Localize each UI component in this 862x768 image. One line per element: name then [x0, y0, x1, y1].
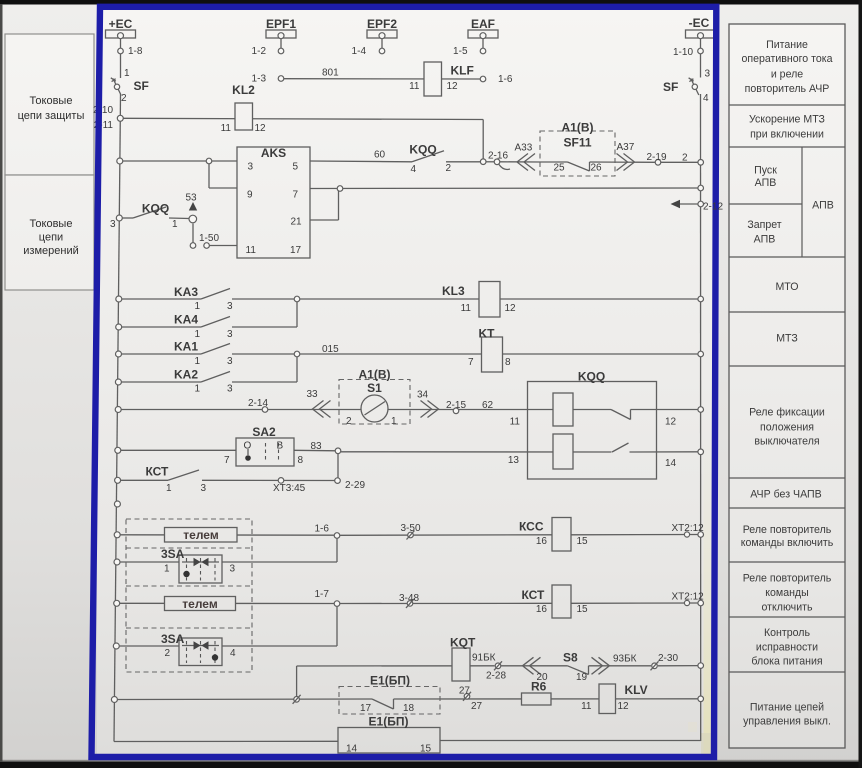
svg-text:2-19: 2-19: [647, 152, 667, 163]
svg-text:Реле повторитель: Реле повторитель: [743, 524, 832, 536]
svg-text:11: 11: [581, 701, 592, 712]
svg-text:управления выкл.: управления выкл.: [743, 716, 831, 728]
svg-text:12: 12: [255, 123, 267, 134]
svg-text:1: 1: [164, 564, 170, 575]
svg-text:команды включить: команды включить: [741, 537, 834, 549]
svg-text:2: 2: [346, 416, 352, 427]
svg-text:1-10: 1-10: [673, 47, 693, 58]
svg-text:КСТ: КСТ: [522, 588, 546, 602]
svg-text:исправности: исправности: [756, 642, 818, 654]
svg-text:3: 3: [705, 69, 711, 80]
svg-text:выключателя: выключателя: [754, 436, 819, 448]
svg-text:телем: телем: [183, 528, 219, 542]
svg-text:команды: команды: [765, 587, 808, 599]
svg-text:Токовые: Токовые: [30, 95, 73, 107]
svg-text:3: 3: [227, 356, 233, 367]
svg-text:В: В: [277, 441, 284, 452]
svg-text:11: 11: [409, 81, 420, 92]
svg-text:S1: S1: [367, 381, 382, 395]
svg-text:KLV: KLV: [625, 683, 648, 697]
svg-text:2-14: 2-14: [248, 398, 268, 409]
svg-text:2: 2: [121, 93, 127, 104]
svg-text:17: 17: [290, 245, 302, 256]
svg-text:3: 3: [230, 564, 236, 575]
svg-text:1-4: 1-4: [352, 46, 367, 57]
svg-text:1-3: 1-3: [252, 74, 267, 85]
svg-text:4: 4: [411, 164, 417, 175]
svg-text:4: 4: [703, 93, 709, 104]
svg-text:1: 1: [124, 68, 130, 79]
svg-text:93БК: 93БК: [613, 654, 637, 665]
svg-text:при включении: при включении: [750, 129, 824, 141]
svg-text:О: О: [244, 441, 252, 452]
svg-text:2-30: 2-30: [658, 653, 678, 664]
svg-text:3: 3: [110, 219, 116, 230]
svg-text:33: 33: [307, 389, 319, 400]
svg-text:14: 14: [346, 744, 358, 755]
svg-text:SA2: SA2: [252, 425, 276, 439]
svg-text:1-50: 1-50: [199, 233, 219, 244]
svg-text:КСС: КСС: [519, 520, 544, 534]
svg-text:KA4: KA4: [174, 313, 198, 327]
svg-text:11: 11: [510, 417, 521, 428]
svg-text:3: 3: [201, 483, 207, 494]
svg-text:015: 015: [322, 344, 339, 355]
svg-text:A33: A33: [515, 143, 533, 154]
svg-text:цепи: цепи: [39, 232, 63, 244]
svg-text:21: 21: [291, 217, 303, 228]
svg-text:EAF: EAF: [471, 17, 495, 31]
svg-text:блока питания: блока питания: [751, 656, 822, 668]
svg-text:11: 11: [461, 303, 472, 314]
svg-text:Контроль: Контроль: [764, 627, 810, 639]
svg-text:EPF1: EPF1: [266, 17, 296, 31]
svg-text:+EC: +EC: [109, 17, 133, 31]
svg-text:2: 2: [682, 153, 688, 164]
svg-text:KL2: KL2: [232, 83, 255, 97]
svg-text:АПВ: АПВ: [812, 200, 834, 212]
svg-text:KQT: KQT: [450, 636, 476, 650]
svg-text:15: 15: [577, 604, 589, 615]
svg-text:16: 16: [536, 536, 548, 547]
svg-text:оперативного тока: оперативного тока: [741, 53, 832, 65]
svg-text:7: 7: [224, 455, 230, 466]
svg-text:KL3: KL3: [442, 284, 465, 298]
svg-text:МТО: МТО: [775, 281, 798, 293]
svg-text:4: 4: [230, 648, 236, 659]
svg-text:KLF: KLF: [451, 64, 474, 78]
svg-text:Запрет: Запрет: [747, 219, 781, 231]
svg-text:83: 83: [311, 441, 323, 452]
svg-text:1: 1: [195, 384, 201, 395]
svg-text:SF: SF: [663, 80, 678, 94]
svg-text:Пуск: Пуск: [754, 165, 777, 177]
svg-text:14: 14: [665, 458, 677, 469]
svg-text:5: 5: [293, 162, 299, 173]
svg-text:1-7: 1-7: [315, 589, 330, 600]
svg-text:телем: телем: [182, 597, 218, 611]
svg-text:1: 1: [391, 416, 397, 427]
svg-text:1-2: 1-2: [252, 46, 267, 57]
svg-text:A1(B): A1(B): [359, 368, 391, 382]
svg-text:Питание: Питание: [766, 39, 808, 51]
svg-text:12: 12: [505, 303, 517, 314]
svg-text:3: 3: [248, 162, 254, 173]
svg-text:МТЗ: МТЗ: [776, 333, 798, 345]
svg-text:1: 1: [195, 329, 201, 340]
svg-text:7: 7: [293, 190, 299, 201]
svg-text:1-6: 1-6: [315, 524, 330, 535]
svg-text:12: 12: [447, 81, 459, 92]
svg-text:Токовые: Токовые: [30, 218, 73, 230]
svg-text:Реле повторитель: Реле повторитель: [743, 573, 832, 585]
svg-text:1-6: 1-6: [498, 74, 513, 85]
svg-text:34: 34: [417, 390, 429, 401]
svg-text:Е1(БП): Е1(БП): [369, 715, 409, 729]
svg-text:11: 11: [221, 123, 232, 134]
svg-text:20: 20: [537, 672, 549, 683]
svg-text:15: 15: [420, 744, 432, 755]
svg-text:АПВ: АПВ: [754, 234, 776, 246]
svg-text:2: 2: [165, 648, 171, 659]
svg-text:S8: S8: [563, 651, 578, 665]
svg-text:9: 9: [247, 190, 253, 201]
svg-text:3SA: 3SA: [161, 547, 185, 561]
svg-text:2-29: 2-29: [345, 480, 365, 491]
svg-text:60: 60: [374, 150, 386, 161]
svg-text:Ускорение МТЗ: Ускорение МТЗ: [749, 114, 825, 126]
svg-text:ХТ2:12: ХТ2:12: [672, 592, 705, 603]
svg-text:11: 11: [246, 245, 257, 256]
svg-text:1: 1: [166, 483, 172, 494]
svg-text:A1(B): A1(B): [562, 121, 594, 135]
svg-text:3: 3: [227, 329, 233, 340]
svg-text:2-15: 2-15: [446, 400, 466, 411]
svg-text:1: 1: [172, 219, 178, 230]
svg-text:8: 8: [298, 455, 304, 466]
svg-text:2: 2: [446, 163, 452, 174]
svg-text:ХТ2:12: ХТ2:12: [672, 523, 705, 534]
svg-text:12: 12: [665, 417, 677, 428]
svg-text:3-48: 3-48: [399, 593, 419, 604]
svg-text:18: 18: [403, 703, 415, 714]
svg-text:801: 801: [322, 68, 339, 79]
svg-text:26: 26: [591, 163, 603, 174]
svg-text:Питание цепей: Питание цепей: [750, 702, 824, 714]
svg-text:2-12: 2-12: [703, 202, 723, 213]
svg-text:SF11: SF11: [563, 136, 591, 150]
svg-text:KA1: KA1: [174, 340, 198, 354]
svg-text:1: 1: [195, 301, 201, 312]
svg-text:KQQ: KQQ: [409, 143, 436, 157]
svg-text:1: 1: [195, 356, 201, 367]
svg-text:27: 27: [459, 686, 471, 697]
svg-text:3-50: 3-50: [401, 523, 421, 534]
svg-text:AKS: AKS: [261, 146, 286, 160]
svg-text:АПВ: АПВ: [755, 177, 777, 189]
svg-text:-EC: -EC: [689, 16, 710, 30]
svg-text:7: 7: [468, 357, 474, 368]
svg-text:АЧР без ЧАПВ: АЧР без ЧАПВ: [750, 489, 821, 501]
svg-text:отключить: отключить: [762, 602, 813, 614]
svg-text:15: 15: [577, 536, 589, 547]
svg-text:3SA: 3SA: [161, 632, 185, 646]
svg-text:3: 3: [227, 301, 233, 312]
svg-text:19: 19: [576, 672, 588, 683]
svg-text:16: 16: [536, 604, 548, 615]
svg-text:3: 3: [227, 384, 233, 395]
svg-text:62: 62: [482, 400, 494, 411]
svg-text:8: 8: [505, 357, 511, 368]
svg-text:25: 25: [554, 163, 566, 174]
svg-text:Реле фиксации: Реле фиксации: [749, 407, 825, 419]
svg-text:EPF2: EPF2: [367, 17, 397, 31]
svg-text:12: 12: [618, 701, 630, 712]
svg-text:91БК: 91БК: [472, 653, 496, 664]
svg-text:1-5: 1-5: [453, 46, 468, 57]
svg-text:A37: A37: [617, 142, 635, 153]
svg-text:2-28: 2-28: [486, 671, 506, 682]
svg-text:27: 27: [471, 701, 483, 712]
svg-text:ХТ3:45: ХТ3:45: [273, 483, 306, 494]
svg-text:цепи защиты: цепи защиты: [18, 110, 85, 122]
svg-text:2-16: 2-16: [488, 151, 508, 162]
svg-text:KQQ: KQQ: [578, 370, 605, 384]
svg-text:Е1(БП): Е1(БП): [370, 674, 410, 688]
svg-text:КСТ: КСТ: [146, 465, 170, 479]
svg-text:измерений: измерений: [23, 245, 78, 257]
svg-text:повторитель АЧР: повторитель АЧР: [745, 83, 830, 95]
svg-text:13: 13: [508, 455, 520, 466]
svg-text:KA2: KA2: [174, 368, 198, 382]
svg-text:1-8: 1-8: [128, 46, 143, 57]
svg-text:KT: KT: [479, 327, 496, 341]
svg-text:17: 17: [360, 703, 372, 714]
svg-text:SF: SF: [134, 79, 149, 93]
svg-text:KQQ: KQQ: [142, 202, 169, 216]
svg-text:положения: положения: [760, 422, 814, 434]
svg-text:53: 53: [186, 193, 198, 204]
svg-text:и реле: и реле: [771, 69, 803, 81]
svg-text:KA3: KA3: [174, 285, 198, 299]
